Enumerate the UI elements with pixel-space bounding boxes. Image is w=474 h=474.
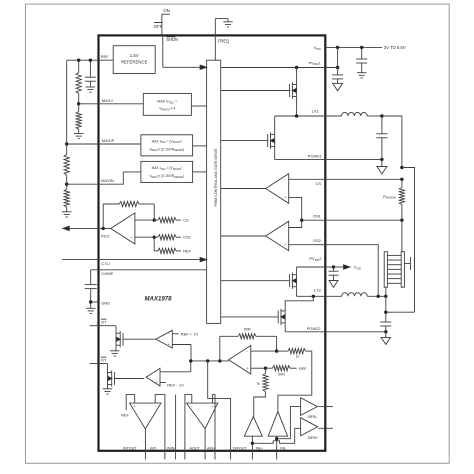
- transistor Q4 low-side 2: [284, 311, 286, 323]
- wire LX2 node down: [385, 296, 387, 312]
- wire CS amp plus to OS1: [289, 197, 302, 220]
- svg-text:FB-: FB-: [280, 446, 287, 450]
- svg-text:CS: CS: [316, 181, 322, 186]
- svg-text:+: +: [284, 243, 286, 247]
- svg-text:−: −: [191, 404, 193, 408]
- arrow to VDD: [334, 266, 345, 268]
- svg-text:MAX ITEC = (VMAXIN/: MAX ITEC = (VMAXIN/: [152, 166, 182, 171]
- svg-text:INTOUT: INTOUT: [123, 446, 137, 450]
- wire REF bus down left side: [66, 60, 68, 144]
- wire MAXIN row: [67, 183, 99, 185]
- svg-text:VREF) x (0.15V/RSENSE): VREF) x (0.15V/RSENSE): [149, 174, 184, 179]
- svg-text:VDD: VDD: [354, 265, 362, 271]
- node Q1 drain: [295, 66, 298, 69]
- op-amp OS amplifier: [266, 221, 289, 251]
- wire FET2 gate to comparator: [115, 378, 144, 380]
- wire CS row: [289, 178, 326, 180]
- wire MAXIP to box: [99, 143, 141, 145]
- node DIF minus: [275, 349, 278, 352]
- wire FB- pin column: [276, 436, 278, 460]
- wire INT plus input to REF: [126, 395, 135, 411]
- wire Q4 gate: [221, 316, 279, 318]
- wire comparator1 plus input to DIFOUT node: [172, 344, 191, 346]
- resistor RSENSE: [401, 179, 403, 187]
- svg-text:−: −: [284, 225, 286, 229]
- svg-text:+: +: [211, 404, 213, 408]
- wire CS external to RSENSE: [325, 178, 402, 180]
- wire CS amp output to PWM: [221, 188, 266, 190]
- wire SHDN to PWM block: [162, 37, 164, 68]
- node PVDD2 external: [332, 265, 335, 268]
- svg-text:50R: 50R: [244, 328, 251, 332]
- arrow ITEC output: [63, 226, 70, 230]
- svg-text:BFB-: BFB-: [308, 414, 318, 419]
- svg-text:MAX1978: MAX1978: [145, 296, 172, 303]
- node VDD cap2: [360, 46, 363, 49]
- node TEC left bottom: [384, 295, 387, 298]
- ground below MAXIN divider: [62, 211, 71, 213]
- wire PVDD2 row: [297, 266, 326, 268]
- capacitor C LX1 output: [381, 116, 383, 134]
- comparator REF-1V: [146, 368, 160, 386]
- wire PGND2 row: [285, 331, 325, 333]
- node LX2 cap top: [384, 311, 387, 314]
- svg-text:MAX VTEC =: MAX VTEC =: [157, 100, 177, 105]
- svg-text:ININ-: ININ-: [167, 446, 176, 450]
- power ground PGND2: [385, 332, 387, 338]
- wire OT1 row: [90, 325, 99, 327]
- inductor L2: [342, 293, 368, 297]
- block MAX ITEC MAXIP formula: [141, 135, 193, 156]
- wire LX2 external: [325, 295, 341, 297]
- buffer BFB- output: [301, 398, 318, 416]
- node DIF plus: [264, 367, 267, 370]
- wire OS1 row: [302, 219, 326, 221]
- svg-text:R: R: [257, 382, 260, 386]
- wire OS1 external: [325, 219, 402, 221]
- node OS1 internal: [300, 219, 303, 222]
- svg-text:REFERENCE: REFERENCE: [121, 60, 148, 65]
- svg-text:COMP: COMP: [101, 271, 113, 276]
- wire BFB+ output stub: [318, 427, 333, 429]
- ground below COMP capacitor: [90, 302, 92, 308]
- svg-text:REF - 1V: REF - 1V: [167, 382, 184, 387]
- svg-text:FB+: FB+: [256, 446, 263, 450]
- resistor REF to MAXV divider top: [78, 60, 80, 72]
- ground below MAXV divider: [74, 133, 84, 135]
- capacitor COMP compensation: [90, 270, 92, 285]
- resistor R to buffered FB+: [263, 374, 268, 392]
- ground below FET1: [115, 345, 117, 351]
- wire Q4 source to PGND2: [284, 323, 286, 332]
- svg-text:DIFOUT: DIFOUT: [233, 446, 247, 450]
- wire Q3 gate: [221, 280, 290, 282]
- wire MAXIN to box stepped: [99, 172, 141, 184]
- svg-text:ITEC: ITEC: [101, 233, 110, 238]
- svg-text:+: +: [284, 196, 286, 200]
- wire OS amp minus to OS1 node: [289, 220, 302, 227]
- svg-text:CTLI: CTLI: [101, 261, 110, 266]
- wire PGND2 external: [325, 331, 386, 333]
- resistor to REF: [153, 237, 155, 251]
- svg-text:FREQ: FREQ: [218, 38, 230, 43]
- svg-text:OS2: OS2: [313, 238, 322, 243]
- svg-text:REF: REF: [183, 249, 191, 253]
- svg-text:OS1: OS1: [313, 214, 322, 219]
- wire ITEC plus input row: [135, 236, 154, 238]
- wire MAXV to VTEC box: [99, 103, 144, 105]
- buffer FB- follower: [268, 411, 287, 436]
- wire FB+ pin column: [251, 436, 253, 460]
- TEC module right electrode: [401, 252, 404, 288]
- wire A plus input to AIN+ pin: [213, 395, 216, 460]
- node MAXIN: [65, 183, 68, 186]
- svg-text:LX2: LX2: [314, 288, 322, 293]
- TEC module left electrode: [384, 252, 387, 288]
- wire DIFOUT node row: [191, 360, 229, 362]
- ground at FREQ: [227, 19, 229, 22]
- svg-text:+: +: [168, 343, 170, 347]
- wire ININ- pin column: [175, 395, 177, 460]
- wire COMP row: [91, 269, 99, 271]
- svg-text:RSENSE: RSENSE: [383, 195, 396, 200]
- wire OS2 external loop: [325, 245, 378, 297]
- node FB+: [251, 442, 254, 445]
- resistor MAXIP-MAXIN divider: [66, 144, 68, 154]
- wire PGND1 external: [325, 158, 382, 160]
- svg-text:1.5V: 1.5V: [130, 53, 139, 58]
- node MAXV: [77, 102, 80, 105]
- wire INT minus input to INT- pin: [155, 395, 165, 460]
- node PVDD1 external: [336, 66, 339, 69]
- svg-text:−: −: [168, 332, 170, 336]
- svg-text:−: −: [246, 349, 248, 353]
- wire VDD to PVDD1: [337, 47, 339, 67]
- svg-text:ON: ON: [163, 8, 170, 13]
- node ITEC plus input: [153, 236, 156, 239]
- svg-text:REF: REF: [121, 414, 129, 418]
- transistor Q6 clamp FET2: [107, 364, 109, 373]
- wire OT2 row: [90, 363, 99, 365]
- svg-text:REF: REF: [299, 367, 307, 371]
- node FB-: [275, 437, 278, 440]
- wire V1 to RSENSE top: [382, 116, 402, 168]
- wire MAXIN box to PWM block: [193, 171, 207, 173]
- node PGND2 external: [384, 330, 387, 333]
- wire ITEC minus input row: [135, 219, 154, 221]
- svg-text:SHDN: SHDN: [166, 37, 178, 42]
- svg-text:LX1: LX1: [312, 108, 320, 113]
- resistor MAXIN to ground: [66, 184, 68, 189]
- wire DIF plus row: [251, 367, 266, 369]
- wire OS2 row: [289, 244, 326, 246]
- wire LX1 row: [275, 115, 326, 117]
- node ITEC feedback junction: [102, 227, 105, 230]
- svg-text:+: +: [131, 236, 133, 240]
- node LX1: [295, 114, 298, 117]
- svg-text:AIN+: AIN+: [207, 446, 215, 450]
- wire right loop top: [402, 168, 415, 313]
- comparator REF+1V: [156, 330, 172, 348]
- arrow CTLI into PWM: [200, 257, 207, 261]
- wire Q1 gate: [221, 90, 290, 92]
- svg-text:VREF) x (0.15V/RSENSE): VREF) x (0.15V/RSENSE): [149, 148, 184, 153]
- node MAXIP on REF bus: [65, 142, 68, 145]
- transistor Q5 clamp FET1: [115, 326, 117, 334]
- svg-text:OT: OT: [101, 319, 107, 324]
- wire BFB- output stub: [318, 406, 333, 408]
- capacitor PVDD1 bypass: [337, 68, 339, 75]
- svg-text:CS: CS: [183, 219, 189, 223]
- capacitor PVDD2 bypass: [333, 267, 335, 271]
- wire FB+ to BFB+ buffer with hop: [252, 428, 300, 443]
- node comparator tap: [189, 359, 192, 362]
- svg-text:−: −: [284, 178, 286, 182]
- power ground below PVDD1 cap: [333, 83, 343, 91]
- svg-text:OT: OT: [101, 357, 107, 362]
- capacitor LX2 output: [385, 312, 387, 322]
- wire REF row: [67, 59, 114, 61]
- transistor Q2 low-side 1: [274, 135, 276, 147]
- wire RSENSE to TEC right electrode: [401, 220, 403, 252]
- op-amp ITEC monitor: [111, 213, 135, 244]
- capacitor on REF to ground: [89, 60, 91, 77]
- ground below REF capacitor: [86, 86, 96, 88]
- block MAX ITEC MAXIN formula: [141, 161, 193, 182]
- wire ITEC output: [99, 227, 112, 229]
- svg-text:INT-: INT-: [150, 446, 158, 450]
- resistor 50R feedback: [219, 336, 221, 361]
- node DIFOUT branch: [206, 359, 209, 362]
- block 1.5V REFERENCE: [113, 46, 155, 74]
- svg-text:3V TO 5.5V: 3V TO 5.5V: [384, 45, 406, 50]
- svg-text:MAXV: MAXV: [102, 98, 114, 103]
- resistor ITEC feedback: [102, 204, 104, 228]
- power ground PGND1: [381, 159, 383, 166]
- svg-text:−: −: [155, 404, 157, 408]
- svg-text:PVDD1: PVDD1: [309, 60, 322, 66]
- op-amp chopper integrator: [130, 403, 161, 429]
- wire VDD row: [325, 46, 382, 48]
- wire AOUT column: [204, 429, 206, 460]
- wire PGND1 row: [275, 158, 326, 160]
- wire VTEC box to PWM block: [191, 105, 206, 107]
- inductor L1: [325, 115, 341, 117]
- svg-text:OFF: OFF: [154, 24, 163, 29]
- wire right loop bottom: [386, 311, 415, 313]
- wire MAXV row: [79, 103, 99, 105]
- transistor Q3 high-side 2: [296, 275, 298, 287]
- capacitor VDD bypass: [361, 47, 363, 59]
- IC U1 MAX1978 chip outline: [99, 35, 326, 450]
- node CS RSENSE: [400, 178, 403, 181]
- node RSENSE top loop: [400, 166, 403, 169]
- wire INTOUT column: [144, 429, 146, 460]
- buffer FB+ follower: [244, 417, 262, 437]
- wire comparator2 plus input REF-1V: [160, 382, 166, 384]
- svg-text:−: −: [131, 217, 133, 221]
- wire comparator1 minus input REF+1V: [172, 333, 178, 335]
- svg-text:PVDD2: PVDD2: [309, 256, 322, 262]
- wire LX2 to Q4 drain: [285, 296, 313, 311]
- node PGND1 external: [380, 158, 383, 161]
- wire DIF minus row: [251, 350, 277, 352]
- svg-text:PGND1: PGND1: [308, 153, 323, 158]
- wire FB- to BFB- buffer: [277, 407, 301, 439]
- svg-text:MAX ITEC = (VMAXIP/: MAX ITEC = (VMAXIP/: [152, 140, 182, 145]
- svg-text:MAXIP: MAXIP: [102, 138, 115, 143]
- wire comparator2 minus input to DIFOUT node: [160, 371, 191, 373]
- svg-text:OS1: OS1: [183, 236, 191, 240]
- power ground below PVDD2 cap: [329, 281, 338, 288]
- resistor MAXV to ground: [78, 104, 80, 112]
- resistor to CS: [158, 218, 176, 223]
- svg-text:REF: REF: [101, 54, 110, 59]
- node VDD cap1: [336, 46, 339, 49]
- svg-text:REF + 1V: REF + 1V: [181, 331, 199, 336]
- svg-text:−: −: [156, 370, 158, 374]
- wire SHDN pin: [161, 23, 163, 36]
- wire R loop down to FB- buffer output: [278, 351, 312, 411]
- block PWM CONTROL AND GATE DRIVE: [207, 60, 221, 323]
- op-amp current sense CS: [266, 174, 289, 204]
- node OS1 RSENSE bottom: [400, 219, 403, 222]
- resistor to OS1: [154, 236, 158, 238]
- svg-text:BFB+: BFB+: [308, 435, 319, 440]
- node 50R feedback branch: [218, 359, 221, 362]
- wire GND row: [91, 301, 99, 303]
- node L1 output: [380, 114, 383, 117]
- svg-text:+: +: [246, 367, 248, 371]
- resistor R to buffered FB-: [277, 350, 288, 352]
- wire PVDD2 external: [325, 266, 333, 268]
- buffer BFB+ output: [301, 418, 318, 436]
- node COMP-GND junction: [89, 300, 92, 303]
- svg-text:+: +: [156, 381, 158, 385]
- svg-text:PGND2: PGND2: [307, 326, 322, 331]
- ground below FET2: [107, 385, 109, 389]
- wire MAXIP box to PWM block: [193, 145, 207, 147]
- wire OS amp output to PWM: [221, 235, 266, 237]
- op-amp difference amplifier: [229, 346, 251, 375]
- node REF-divider junction: [77, 59, 80, 62]
- svg-text:MAXIN: MAXIN: [101, 178, 114, 183]
- wire PVDD1 row: [221, 67, 338, 69]
- wire DIFOUT column: [208, 361, 231, 460]
- wire TEC left electrode to LX2 node: [385, 287, 387, 296]
- svg-text:VDD: VDD: [314, 45, 322, 51]
- svg-text:R: R: [296, 355, 299, 359]
- node ITEC minus input: [153, 218, 156, 221]
- resistor 50R to REF: [266, 367, 273, 369]
- node L2 output: [377, 295, 380, 298]
- svg-text:VMAXV x 4: VMAXV x 4: [159, 107, 175, 112]
- wire Q2 gate: [221, 140, 268, 142]
- svg-text:+: +: [134, 404, 136, 408]
- svg-text:AOUT: AOUT: [190, 446, 201, 450]
- svg-text:GND: GND: [101, 300, 110, 305]
- svg-text:PWM CONTROL AND GATE DRIVE: PWM CONTROL AND GATE DRIVE: [214, 148, 218, 207]
- block MAX VTEC formula: [143, 94, 191, 116]
- wire LX2 row internal: [297, 295, 326, 297]
- transistor Q1 high-side 1: [296, 85, 298, 97]
- node LX2: [312, 295, 315, 298]
- TEC module rungs: [387, 254, 401, 256]
- wire FET1 gate to comparator: [123, 338, 156, 340]
- capacitor across TEC: [404, 263, 410, 265]
- svg-text:50R: 50R: [278, 372, 285, 376]
- wire FREQ pin: [214, 19, 216, 61]
- wire A minus input to AIN- pin: [185, 395, 192, 460]
- wire CTLI input: [62, 259, 98, 261]
- op-amp chopper amplifier: [187, 403, 218, 429]
- ground below VDD cap: [357, 72, 367, 74]
- wire MAXIP row: [67, 143, 99, 145]
